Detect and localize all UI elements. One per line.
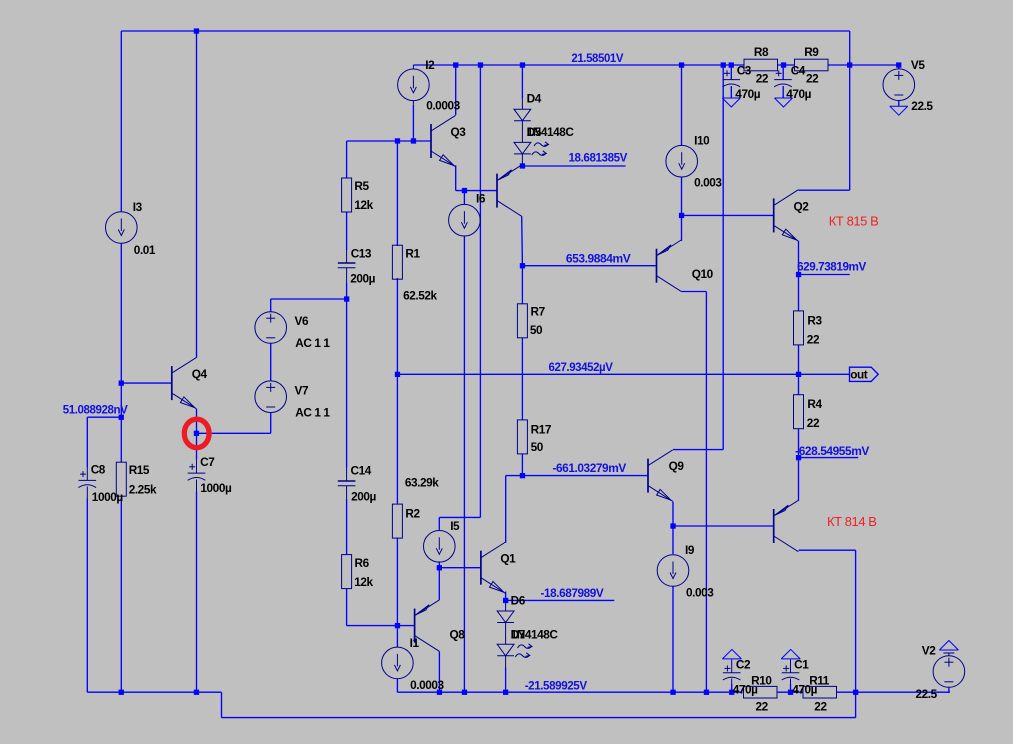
wire: [898, 101, 900, 107]
wire: [412, 105, 414, 141]
junction: [847, 62, 852, 67]
wire: [778, 64, 795, 66]
svg-text:1000µ: 1000µ: [92, 490, 124, 504]
wire: [521, 338, 523, 420]
wire: [682, 214, 774, 216]
svg-text:18.681385V: 18.681385V: [569, 151, 628, 165]
wire: [346, 499, 348, 555]
wire: [522, 265, 656, 267]
wire: [270, 413, 272, 434]
svg-text:22: 22: [806, 71, 819, 85]
wire: [346, 212, 348, 250]
junction: [796, 455, 801, 460]
wire: [521, 65, 523, 99]
diode D5: [514, 142, 531, 154]
junction: [194, 690, 199, 695]
wire: [828, 64, 899, 66]
wire: [722, 65, 724, 450]
svg-text:R17: R17: [531, 422, 552, 436]
transistor Q10: [656, 249, 658, 283]
svg-text:2.25k: 2.25k: [129, 483, 157, 497]
resistor R17: [517, 420, 551, 454]
svg-text:Q3: Q3: [451, 125, 467, 139]
resistor R11: [803, 674, 837, 714]
wire: [790, 679, 792, 685]
svg-text:0.0003: 0.0003: [426, 99, 460, 113]
svg-text:Q10: Q10: [692, 267, 714, 281]
wire: [196, 31, 198, 358]
junction: [395, 623, 400, 628]
wire: [799, 457, 859, 459]
wire: [463, 191, 465, 205]
wire: [799, 549, 856, 551]
svg-text:12k: 12k: [354, 198, 373, 212]
svg-text:200µ: 200µ: [351, 489, 376, 503]
current source I2: [398, 69, 430, 101]
svg-text:470µ: 470µ: [792, 682, 817, 696]
wire: [396, 141, 398, 246]
svg-text:C13: C13: [351, 246, 372, 260]
ground: [781, 658, 800, 660]
ground: [775, 97, 793, 99]
capacitor C7: [188, 472, 206, 474]
marker red circle: [184, 419, 209, 448]
wire: [86, 467, 88, 480]
wire: [87, 691, 221, 693]
voltage source V5: [883, 69, 915, 101]
voltage source V6: [255, 312, 287, 344]
wire: [521, 154, 523, 165]
wire: [412, 65, 414, 69]
svg-text:Q1: Q1: [500, 552, 516, 566]
svg-text:D6: D6: [511, 594, 526, 608]
wire: [397, 691, 742, 693]
wire: [798, 241, 800, 311]
svg-text:AC 1 1: AC 1 1: [295, 336, 330, 350]
wire: [731, 660, 733, 673]
svg-text:R2: R2: [405, 507, 420, 521]
wire: [479, 65, 481, 517]
current source I9: [657, 555, 689, 587]
junction: [437, 690, 442, 695]
capacitor C8: [79, 479, 97, 481]
wire: [673, 449, 723, 451]
wire: [681, 215, 683, 241]
capacitor C1: [782, 672, 800, 674]
wire: [270, 299, 272, 312]
current source I5: [424, 531, 456, 563]
svg-text:50: 50: [530, 323, 543, 337]
junction: [670, 523, 675, 528]
wire: [271, 298, 347, 300]
wire: [782, 65, 784, 80]
junction: [194, 28, 199, 33]
resistor R6: [342, 555, 374, 589]
junction: [520, 163, 525, 168]
svg-text:R9: R9: [804, 45, 819, 59]
svg-text:C14: C14: [351, 464, 372, 478]
svg-text:КТ 815 В: КТ 815 В: [829, 215, 879, 229]
wire: [346, 250, 348, 263]
wire: [86, 487, 88, 499]
svg-text:0.003: 0.003: [686, 586, 714, 600]
svg-text:470µ: 470µ: [786, 87, 811, 101]
svg-text:22: 22: [807, 416, 820, 430]
wire: [439, 516, 480, 518]
wire: [505, 623, 507, 645]
resistor R7: [517, 304, 545, 338]
resistor R2: [392, 475, 439, 538]
junction: [729, 690, 734, 695]
wire: [798, 345, 800, 395]
wire: [948, 688, 950, 692]
svg-text:0.01: 0.01: [134, 243, 156, 257]
svg-text:C3: C3: [737, 64, 752, 78]
resistor R10: [744, 674, 778, 714]
wire: [87, 416, 121, 418]
svg-text:C7: C7: [200, 455, 215, 469]
svg-text:629.73819mV: 629.73819mV: [797, 260, 866, 274]
junction: [679, 62, 684, 67]
junction: [194, 431, 199, 436]
wire: [222, 717, 856, 719]
wire: [120, 498, 122, 692]
wire: [799, 274, 850, 276]
svg-text:R8: R8: [754, 45, 769, 59]
wire: [396, 679, 398, 692]
wire: [849, 65, 851, 190]
resistor R1: [392, 245, 437, 302]
wire: [506, 599, 615, 601]
transistor Q8: [414, 609, 416, 643]
junction: [788, 690, 793, 695]
wire: [521, 454, 523, 476]
wire: [463, 236, 465, 692]
wire: [799, 373, 850, 375]
wire: [86, 499, 88, 693]
wire: [948, 688, 950, 689]
svg-text:V7: V7: [295, 383, 309, 397]
wire: [346, 282, 348, 467]
wire: [798, 458, 800, 501]
wire: [438, 561, 440, 567]
junction: [462, 188, 467, 193]
junction: [796, 272, 801, 277]
junction: [679, 213, 684, 218]
wire: [347, 625, 415, 627]
wire: [506, 475, 648, 477]
wire: [730, 65, 732, 80]
svg-text:I10: I10: [694, 134, 710, 148]
wire: [439, 567, 481, 569]
wire: [196, 409, 198, 434]
wire: [120, 31, 122, 211]
svg-text:R5: R5: [354, 179, 369, 193]
current source I3: [106, 212, 138, 244]
wire: [782, 86, 784, 98]
svg-text:I2: I2: [425, 58, 435, 72]
svg-text:out: out: [850, 367, 868, 381]
wire: [731, 679, 733, 685]
junction: [520, 62, 525, 67]
wire: [196, 433, 198, 459]
svg-text:V2: V2: [922, 643, 936, 657]
junction: [344, 296, 349, 301]
svg-text:627.93452µV: 627.93452µV: [549, 360, 614, 374]
wire: [731, 684, 733, 692]
wire: [681, 177, 683, 215]
svg-text:Q2: Q2: [794, 200, 810, 214]
wire: [197, 432, 271, 434]
svg-text:0.003: 0.003: [694, 176, 722, 190]
resistor R5: [342, 178, 374, 212]
wire: [121, 30, 849, 32]
wire: [396, 538, 398, 648]
svg-text:V5: V5: [911, 58, 925, 72]
wire: [505, 476, 507, 543]
resistor R15: [116, 462, 157, 496]
junction: [503, 690, 508, 695]
svg-text:-628.54955mV: -628.54955mV: [795, 444, 869, 458]
wire: [730, 86, 732, 98]
wire: [455, 65, 457, 115]
svg-text:C4: C4: [791, 64, 806, 78]
svg-text:22.5: 22.5: [916, 687, 938, 701]
svg-text:I6: I6: [476, 191, 486, 205]
junction: [453, 62, 458, 67]
wire: [120, 244, 122, 462]
voltage source V2: [933, 656, 965, 688]
wire: [270, 343, 272, 381]
junction: [721, 62, 726, 67]
svg-text:I9: I9: [685, 543, 695, 557]
wire: [438, 651, 440, 692]
junction: [853, 690, 858, 695]
wire: [196, 492, 198, 693]
transistor Q4: [171, 366, 173, 400]
svg-text:63.29k: 63.29k: [405, 475, 439, 489]
wire: [855, 550, 857, 717]
svg-text:Q8: Q8: [450, 627, 466, 641]
wire: [798, 429, 800, 458]
junction: [119, 415, 124, 420]
transistor Q2: [773, 198, 775, 232]
svg-text:Q9: Q9: [669, 459, 685, 473]
wire: [121, 382, 172, 384]
svg-text:0.0003: 0.0003: [410, 678, 444, 692]
svg-text:1000µ: 1000µ: [200, 481, 232, 495]
current source I10: [666, 145, 698, 177]
voltage source V7: [255, 381, 287, 413]
svg-text:-661.03279mV: -661.03279mV: [553, 461, 627, 475]
wire: [196, 480, 198, 492]
junction: [395, 372, 400, 377]
ground: [722, 658, 741, 660]
wire: [778, 691, 803, 693]
junction: [437, 565, 442, 570]
junction: [119, 381, 124, 386]
svg-text:22.5: 22.5: [911, 99, 933, 113]
wire: [455, 165, 457, 190]
junction: [395, 138, 400, 143]
junction: [520, 473, 525, 478]
svg-text:C2: C2: [736, 658, 751, 672]
svg-text:C8: C8: [91, 462, 106, 476]
wire: [943, 652, 954, 654]
svg-text:D7: D7: [511, 627, 526, 641]
transistor Q5: [496, 174, 498, 208]
junction: [478, 62, 483, 67]
wire: [347, 140, 431, 142]
wire: [505, 668, 507, 693]
capacitor C2: [723, 672, 741, 674]
wire: [412, 100, 414, 104]
diode D6: [497, 611, 514, 623]
wire: [673, 525, 774, 527]
svg-text:22: 22: [756, 699, 769, 713]
ground: [939, 649, 958, 651]
port out: [850, 367, 879, 381]
svg-text:R6: R6: [355, 556, 370, 570]
svg-text:653.9884mV: 653.9884mV: [566, 251, 631, 265]
wire: [86, 417, 88, 467]
capacitor C14: [338, 480, 356, 482]
wire: [505, 592, 507, 604]
svg-text:R7: R7: [531, 304, 546, 318]
wire: [836, 691, 950, 693]
transistor Q9: [647, 459, 649, 493]
svg-text:12k: 12k: [354, 575, 373, 589]
wire: [798, 189, 849, 191]
svg-text:I5: I5: [450, 519, 460, 533]
svg-text:22: 22: [814, 699, 827, 713]
svg-text:AC 1 1: AC 1 1: [295, 405, 330, 419]
svg-text:R4: R4: [807, 397, 822, 411]
svg-text:51.088928nV: 51.088928nV: [63, 402, 128, 416]
svg-text:-18.687989V: -18.687989V: [541, 586, 604, 600]
wire: [346, 468, 348, 482]
junction: [520, 263, 525, 268]
wire: [522, 165, 625, 167]
wire: [948, 653, 950, 656]
junction: [503, 598, 508, 603]
wire: [521, 121, 523, 143]
capacitor C13: [338, 262, 356, 264]
wire: [196, 460, 198, 474]
wire: [438, 568, 440, 600]
svg-text:R3: R3: [807, 314, 822, 328]
wire: [396, 278, 398, 504]
svg-text:R1: R1: [405, 247, 420, 261]
wire: [346, 589, 348, 626]
current source I1: [382, 647, 414, 679]
wire: [521, 216, 524, 265]
junction: [119, 690, 124, 695]
wire: [346, 141, 348, 178]
transistor QB: [773, 509, 775, 543]
svg-text:Q4: Q4: [192, 367, 208, 381]
current source I6: [449, 204, 481, 236]
svg-text:D4: D4: [527, 92, 542, 106]
resistor R8: [744, 45, 778, 85]
wire: [413, 64, 744, 66]
svg-text:200µ: 200µ: [350, 272, 375, 286]
resistor R4: [794, 395, 823, 431]
junction: [781, 62, 786, 67]
svg-text:22: 22: [756, 71, 769, 85]
junction: [670, 690, 675, 695]
wire: [790, 684, 792, 692]
wire: [521, 99, 523, 109]
ground: [722, 97, 740, 99]
transistor Q1: [480, 551, 482, 585]
svg-text:КТ 814 В: КТ 814 В: [827, 515, 877, 529]
resistor R9: [795, 45, 829, 85]
junction: [462, 690, 467, 695]
junction: [729, 62, 734, 67]
transistor Q3: [430, 124, 432, 158]
junction: [796, 372, 801, 377]
resistor R3: [794, 311, 823, 347]
svg-text:62.52k: 62.52k: [403, 288, 437, 302]
svg-text:22: 22: [807, 333, 820, 347]
junction: [411, 138, 416, 143]
junction: [704, 690, 709, 695]
svg-text:50: 50: [531, 440, 544, 454]
wire: [849, 31, 851, 65]
capacitor C3: [723, 79, 741, 81]
wire: [521, 266, 523, 304]
svg-text:-21.589925V: -21.589925V: [525, 678, 588, 692]
diode D4: [514, 109, 531, 121]
wire: [346, 268, 348, 283]
diode D7: [497, 644, 514, 656]
wire: [705, 292, 707, 693]
wire: [672, 586, 674, 692]
wire: [221, 692, 223, 717]
wire: [505, 604, 507, 612]
svg-text:21.58501V: 21.58501V: [571, 51, 623, 65]
wire: [681, 291, 706, 293]
wire: [346, 486, 348, 499]
svg-text:D5: D5: [527, 125, 542, 139]
svg-text:470µ: 470µ: [733, 682, 758, 696]
wire: [681, 65, 683, 145]
svg-text:V6: V6: [295, 314, 309, 328]
wire: [397, 373, 798, 375]
junction: [896, 62, 901, 67]
svg-text:I3: I3: [133, 200, 143, 214]
wire: [438, 517, 440, 529]
wire: [672, 502, 674, 555]
wire: [790, 660, 792, 673]
svg-text:C1: C1: [794, 658, 809, 672]
wire: [898, 65, 900, 69]
wire: [505, 656, 507, 668]
capacitor C4: [774, 79, 792, 81]
svg-text:R15: R15: [129, 463, 150, 477]
wire: [456, 190, 497, 192]
ground: [890, 105, 908, 107]
